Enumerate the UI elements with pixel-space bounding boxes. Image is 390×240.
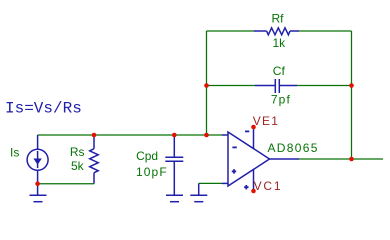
op-amp negative supply plus mark bbox=[244, 185, 248, 189]
svg-text:Cpd: Cpd bbox=[136, 149, 158, 163]
svg-text:10pF: 10pF bbox=[136, 165, 168, 179]
resistor Rs bbox=[90, 135, 99, 184]
wire output row bbox=[299, 158, 383, 160]
junction dot at Rs top bbox=[92, 133, 97, 138]
wire non-inverting input row bbox=[199, 182, 222, 184]
svg-text:AD8065: AD8065 bbox=[268, 141, 319, 155]
resistor Rf bbox=[254, 28, 299, 35]
wire Cf row left segment bbox=[207, 85, 256, 87]
wire right feedback vertical bbox=[351, 31, 353, 159]
current source Is bbox=[27, 135, 48, 195]
wire left feedback vertical bbox=[206, 31, 208, 135]
svg-text:Cf: Cf bbox=[273, 64, 286, 78]
junction dot at left vertical / input row bbox=[204, 133, 209, 138]
ground at op-amp non-inverting input bbox=[190, 183, 207, 201]
op-amp inverting input minus sign bbox=[232, 146, 236, 148]
svg-text:Is: Is bbox=[10, 146, 19, 160]
svg-text:Rf: Rf bbox=[272, 11, 285, 25]
terminal dot VE1 bbox=[251, 125, 256, 130]
wire top feedback row right segment bbox=[299, 30, 352, 32]
svg-text:Is=Vs/Rs: Is=Vs/Rs bbox=[5, 100, 82, 118]
svg-text:7pf: 7pf bbox=[271, 93, 291, 107]
junction dot at left vertical / Cf row bbox=[204, 83, 209, 88]
capacitor Cpd bbox=[165, 135, 183, 195]
wire Cf row right segment bbox=[297, 85, 352, 87]
op-amp positive supply minus mark bbox=[245, 130, 249, 132]
junction dot at Cpd top bbox=[172, 133, 177, 138]
svg-text:5k: 5k bbox=[71, 159, 85, 173]
ground below Is bbox=[30, 195, 47, 201]
svg-text:VE1: VE1 bbox=[253, 114, 279, 128]
op-amp non-inverting input plus sign bbox=[232, 169, 236, 173]
ground below Cpd bbox=[166, 195, 183, 201]
terminal dot VC1 bbox=[251, 189, 256, 194]
wire bottom left row bbox=[38, 183, 94, 185]
capacitor Cf bbox=[255, 79, 297, 93]
svg-text:VC1: VC1 bbox=[254, 179, 283, 193]
junction dot at right vertical / Cf row bbox=[349, 83, 354, 88]
svg-text:Rs: Rs bbox=[70, 145, 85, 159]
op-amp U1 AD8065 bbox=[222, 127, 299, 191]
svg-text:1k: 1k bbox=[273, 36, 287, 50]
wire inverting input row bbox=[38, 134, 222, 136]
junction dot at output / right vertical bbox=[349, 157, 354, 162]
wire top feedback row left segment bbox=[207, 30, 255, 32]
junction dot at Is bottom bbox=[35, 181, 40, 186]
